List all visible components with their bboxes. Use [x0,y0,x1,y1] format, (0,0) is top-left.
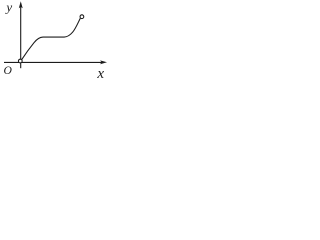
x-axis [4,60,107,64]
svg-text:x: x [96,66,104,82]
curve [22,19,80,60]
svg-text:O: O [4,64,13,77]
y-axis [19,1,23,68]
svg-text:y: y [4,0,12,15]
open circle at origin [18,59,22,63]
open circle at curve end [80,15,84,19]
